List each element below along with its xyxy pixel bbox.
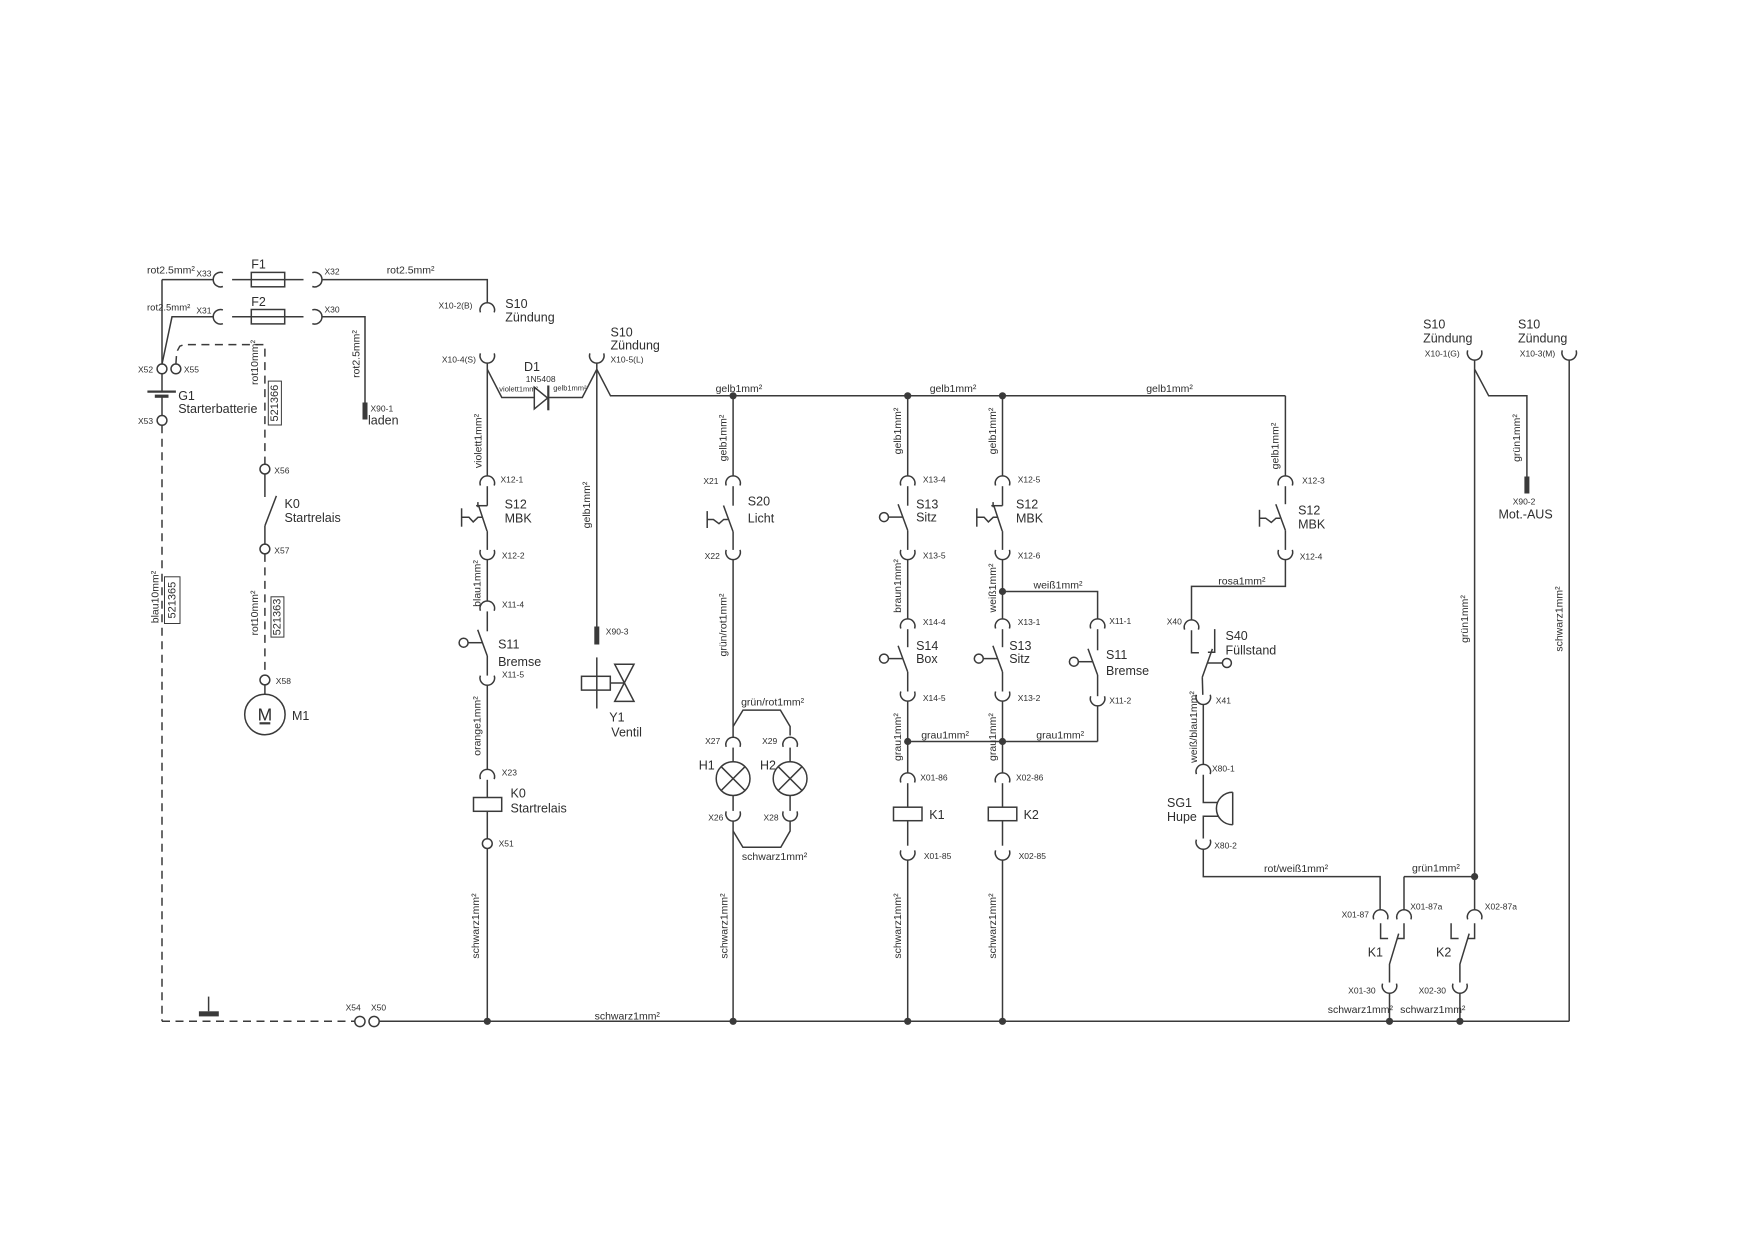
svg-text:D1: D1 bbox=[524, 360, 540, 374]
terminal X51 bbox=[482, 839, 492, 849]
wire X27 to H1 bbox=[732, 748, 734, 762]
svg-text:X01-85: X01-85 bbox=[924, 851, 952, 861]
connector X12-3 bbox=[1278, 476, 1293, 486]
wire schwarz1mm2 X51 to rail bbox=[486, 849, 488, 1022]
svg-text:Startrelais: Startrelais bbox=[511, 802, 567, 816]
svg-text:X51: X51 bbox=[499, 839, 514, 849]
svg-text:MBK: MBK bbox=[1298, 518, 1326, 532]
level switch S40 Fuellstand bbox=[1192, 630, 1199, 653]
svg-text:schwarz1mm²: schwarz1mm² bbox=[470, 893, 482, 959]
wire blau10mm2 dashed (X53 to ground) bbox=[161, 425, 163, 1021]
wire X12-3 to S12 bbox=[1284, 486, 1286, 504]
svg-text:X50: X50 bbox=[371, 1003, 386, 1013]
svg-text:X11-1: X11-1 bbox=[1109, 616, 1131, 626]
wire dashed ground rail bbox=[162, 1020, 355, 1022]
connector X01-85 bbox=[900, 850, 915, 860]
connector X11-4 bbox=[480, 601, 495, 611]
switch S14 Box contact blade bbox=[898, 646, 908, 672]
junction grau link / K1 col bbox=[904, 738, 911, 745]
svg-text:X01-86: X01-86 bbox=[920, 773, 948, 783]
svg-text:grün1mm²: grün1mm² bbox=[1459, 595, 1471, 643]
connector X10-3(M) of S10 bbox=[1562, 350, 1577, 360]
svg-text:Box: Box bbox=[916, 652, 938, 666]
wire S11 to X11-2 bbox=[1097, 675, 1099, 696]
svg-text:Sitz: Sitz bbox=[916, 511, 937, 525]
junction gelb rail / S13 column bbox=[904, 392, 911, 399]
wire X12-5 to S12 bbox=[1002, 486, 1004, 506]
wire H1 to X26 bbox=[732, 796, 734, 811]
switch S20 Licht contact blade bbox=[724, 506, 734, 532]
wire X23 to K0 coil bbox=[486, 780, 488, 798]
connector X13-5 bbox=[900, 550, 915, 560]
connector X10-1(G) of S10 bbox=[1467, 350, 1482, 360]
junction grau link / K2 col bbox=[999, 738, 1006, 745]
svg-text:rot2.5mm²: rot2.5mm² bbox=[147, 265, 195, 277]
wire rot/weiss1mm2 X80-2 to X01-87 bbox=[1203, 850, 1380, 910]
svg-text:grün1mm²: grün1mm² bbox=[1511, 414, 1523, 462]
svg-text:X14-5: X14-5 bbox=[923, 693, 946, 703]
svg-text:X01-87a: X01-87a bbox=[1410, 902, 1442, 912]
connector X01-87 bbox=[1373, 910, 1388, 920]
terminal X90-1 (blade) bbox=[363, 403, 368, 420]
svg-text:weiß1mm²: weiß1mm² bbox=[1033, 580, 1084, 592]
svg-text:521363: 521363 bbox=[272, 599, 284, 636]
svg-text:weiß/blau1mm²: weiß/blau1mm² bbox=[1188, 691, 1200, 764]
wire gelb1mm2 D1 cathode to X10-5 bbox=[548, 363, 597, 397]
connector X27 bbox=[726, 737, 741, 747]
wire through F1 bbox=[232, 279, 303, 281]
svg-text:H1: H1 bbox=[699, 758, 715, 772]
svg-text:gelb1mm²: gelb1mm² bbox=[892, 407, 904, 454]
svg-text:X13-2: X13-2 bbox=[1018, 693, 1041, 703]
wire schwarz1mm2 X10-3 down to rail bbox=[1568, 360, 1570, 1021]
svg-text:K2: K2 bbox=[1024, 808, 1039, 822]
connector X23 bbox=[480, 769, 495, 779]
wire schwarz1mm2 X02-30 to rail bbox=[1459, 994, 1461, 1022]
wire X14-4 to S14 bbox=[907, 629, 909, 647]
wire rot2.5mm2 X31 to X52 bbox=[162, 317, 213, 364]
connector X10-4(S) of S10 bbox=[480, 353, 495, 363]
switch S13 Sitz (2) actuator link bbox=[983, 658, 997, 660]
switch S11 Bremse (2) actuator link bbox=[1078, 661, 1092, 663]
cable tag 521363 bbox=[271, 597, 284, 637]
svg-text:X54: X54 bbox=[346, 1003, 361, 1013]
svg-text:X52: X52 bbox=[138, 365, 153, 375]
svg-text:gelb1mm²: gelb1mm² bbox=[581, 481, 593, 528]
svg-text:F1: F1 bbox=[251, 258, 266, 272]
connector X01-86 bbox=[900, 773, 915, 783]
wire rot10mm2 dashed (X55 to X56) bbox=[176, 345, 265, 465]
switch S12 MBK (3) detent linkage bbox=[1260, 518, 1281, 522]
svg-text:grau1mm²: grau1mm² bbox=[987, 713, 999, 761]
connector X12-6 bbox=[995, 550, 1010, 560]
svg-text:K2: K2 bbox=[1436, 946, 1451, 960]
svg-text:laden: laden bbox=[368, 414, 399, 428]
svg-text:Zündung: Zündung bbox=[505, 310, 554, 324]
svg-text:X90-1: X90-1 bbox=[371, 404, 394, 414]
switch S12 MBK (1) detent linkage bbox=[462, 517, 483, 522]
switch S20 Licht detent linkage bbox=[707, 520, 728, 524]
wire S40 to X41 bbox=[1201, 677, 1204, 695]
svg-text:gelb1mm²: gelb1mm² bbox=[1146, 383, 1193, 395]
connector X13-2 bbox=[995, 692, 1010, 702]
junction gelb rail / S20 column bbox=[730, 392, 737, 399]
terminal X50 bbox=[369, 1016, 379, 1026]
svg-text:K0: K0 bbox=[511, 786, 526, 800]
wire X12-1 to S12 bbox=[486, 486, 488, 506]
connector X02-86 bbox=[995, 773, 1010, 783]
svg-text:X02-30: X02-30 bbox=[1419, 986, 1447, 996]
svg-text:schwarz1mm²: schwarz1mm² bbox=[719, 893, 731, 959]
terminal X55 bbox=[171, 364, 181, 374]
wire X13-4 to S13 bbox=[907, 486, 909, 506]
relay contact K0 (starter) blade bbox=[265, 496, 277, 526]
svg-text:rot10mm²: rot10mm² bbox=[249, 340, 261, 385]
svg-text:Zündung: Zündung bbox=[1423, 332, 1472, 346]
connector X80-2 bbox=[1196, 840, 1211, 850]
wire X90-3 to Y1 bbox=[596, 657, 598, 676]
svg-text:X11-4: X11-4 bbox=[502, 600, 524, 610]
wire H2 to X28 bbox=[789, 796, 791, 811]
svg-text:gelb1mm²: gelb1mm² bbox=[930, 383, 977, 395]
wire blau1mm2 X12-2 to X11-4 bbox=[486, 560, 488, 601]
wire rot2.5mm2 to S10 X10-2(B) bbox=[322, 280, 487, 303]
wire below Y1 bbox=[596, 690, 598, 708]
svg-text:Zündung: Zündung bbox=[611, 339, 660, 353]
terminal X90-2 (blade) bbox=[1524, 477, 1529, 494]
svg-text:S10: S10 bbox=[505, 297, 527, 311]
wire grau1mm2 link bbox=[908, 741, 1098, 743]
terminal X54 bbox=[355, 1016, 365, 1026]
switch S12 MBK (2) fixed contact bar bbox=[991, 505, 1002, 507]
connector X13-1 bbox=[995, 619, 1010, 629]
terminal X90-3 (blade) bbox=[594, 627, 599, 645]
terminal X58 bbox=[260, 675, 270, 685]
switch S12 MBK (1) fixed contact bar bbox=[476, 505, 487, 507]
svg-text:X56: X56 bbox=[274, 466, 289, 476]
svg-text:Mot.-AUS: Mot.-AUS bbox=[1499, 508, 1553, 522]
svg-text:S10: S10 bbox=[1518, 317, 1540, 331]
switch S12 MBK (2) detent linkage bbox=[977, 517, 998, 522]
svg-text:X29: X29 bbox=[762, 736, 777, 746]
relay coil K0 Startrelais bbox=[474, 798, 502, 812]
junction col1/rail bbox=[484, 1018, 491, 1025]
switch S13 Sitz (1) actuator circle bbox=[880, 513, 889, 522]
connector X22 bbox=[726, 550, 741, 560]
relay contact K2 blade bbox=[1460, 934, 1469, 983]
wire grau1mm2 X11-2 to link bbox=[1097, 706, 1099, 741]
connector X21 bbox=[726, 476, 741, 486]
connector X02-85 bbox=[995, 850, 1010, 860]
svg-text:grau1mm²: grau1mm² bbox=[892, 713, 904, 761]
wire braun1mm2 X13-5 to X14-4 bbox=[907, 560, 909, 619]
svg-text:schwarz1mm²: schwarz1mm² bbox=[1554, 586, 1566, 652]
switch S12 MBK (3) detent post bbox=[1259, 510, 1261, 527]
svg-text:X10-3(M): X10-3(M) bbox=[1520, 349, 1556, 359]
svg-text:X10-2(B): X10-2(B) bbox=[439, 300, 473, 310]
connector X11-2 bbox=[1090, 696, 1105, 706]
connector X10-5(L) of S10 bbox=[590, 353, 605, 363]
wire S20 to X22 bbox=[732, 532, 734, 550]
wire weiss1mm2 X12-6 down bbox=[1002, 560, 1004, 619]
terminal X52 bbox=[157, 364, 167, 374]
wire K0 to X57 bbox=[264, 526, 266, 544]
switch S11 Bremse (1) contact blade bbox=[478, 630, 488, 656]
svg-text:X12-6: X12-6 bbox=[1018, 551, 1041, 561]
switch S12 MBK (1) detent post bbox=[461, 508, 463, 526]
wire grau1mm2 X14-5 to X01-86 bbox=[907, 701, 909, 772]
svg-text:X12-5: X12-5 bbox=[1018, 475, 1041, 485]
wire gruen1mm2 down to X01-87a bbox=[1403, 877, 1405, 910]
svg-text:rot10mm²: rot10mm² bbox=[249, 590, 261, 635]
svg-text:521365: 521365 bbox=[167, 582, 179, 619]
svg-text:rot2.5mm²: rot2.5mm² bbox=[387, 265, 435, 277]
switch S20 Licht detent post bbox=[706, 511, 708, 528]
svg-text:violett1mm²: violett1mm² bbox=[473, 413, 485, 468]
svg-text:SG1: SG1 bbox=[1167, 796, 1192, 810]
connector X26 bbox=[726, 811, 741, 821]
svg-text:MBK: MBK bbox=[1016, 511, 1044, 525]
wire S13 to X13-2 bbox=[1002, 672, 1004, 692]
diode D1 1N5408 bbox=[534, 387, 547, 409]
connector X40 bbox=[1184, 620, 1199, 630]
svg-text:K0: K0 bbox=[285, 497, 300, 511]
svg-text:blau1mm²: blau1mm² bbox=[472, 560, 484, 607]
wire gruen1mm2 X10-1 down to X02-87a bbox=[1474, 360, 1476, 909]
wire violett1mm2 to D1 anode bbox=[487, 369, 534, 397]
svg-text:X12-3: X12-3 bbox=[1302, 476, 1325, 486]
switch S13 Sitz (1) contact blade bbox=[898, 504, 908, 530]
svg-text:Y1: Y1 bbox=[609, 711, 624, 725]
wire X58 to M1 bbox=[264, 685, 266, 694]
relay contact K2 terminals bbox=[1451, 923, 1459, 938]
svg-text:X11-5: X11-5 bbox=[502, 670, 524, 680]
svg-text:S10: S10 bbox=[1423, 317, 1445, 331]
svg-text:X33: X33 bbox=[196, 269, 211, 279]
wire weiss/blau1mm2 X41 to X80-1 bbox=[1202, 705, 1204, 765]
svg-text:X22: X22 bbox=[705, 551, 720, 561]
wire rot2.5mm2 to X90-1 bbox=[322, 317, 365, 403]
wire schwarz1mm2 X28 joins X26 bbox=[733, 821, 790, 847]
svg-text:F2: F2 bbox=[251, 295, 266, 309]
wire K0 coil to X51 bbox=[486, 811, 488, 838]
svg-text:Bremse: Bremse bbox=[498, 655, 541, 669]
svg-text:X12-1: X12-1 bbox=[501, 475, 524, 485]
connector X02-87a bbox=[1467, 910, 1482, 920]
wire rosa1mm2 X12-4 to X40 bbox=[1192, 560, 1286, 620]
connector X12-5 bbox=[995, 476, 1010, 486]
svg-text:X90-2: X90-2 bbox=[1513, 497, 1536, 507]
junction gelb rail / S12 mid column bbox=[999, 392, 1006, 399]
svg-text:S11: S11 bbox=[1106, 648, 1127, 662]
connector X13-4 bbox=[900, 476, 915, 486]
terminal X57 bbox=[260, 544, 270, 554]
wire violett1mm2 X10-4 down to X12-1 bbox=[486, 363, 488, 475]
connector X01-87a bbox=[1397, 910, 1412, 920]
svg-text:X02-86: X02-86 bbox=[1016, 773, 1044, 783]
wire gruen1mm2 link to X01-87a bbox=[1404, 876, 1475, 878]
wire schwarz1mm2 X26 to rail bbox=[732, 821, 734, 1021]
svg-text:X01-30: X01-30 bbox=[1348, 986, 1376, 996]
svg-text:Starterbatterie: Starterbatterie bbox=[178, 402, 257, 416]
svg-text:X31: X31 bbox=[196, 306, 211, 316]
svg-text:X30: X30 bbox=[325, 305, 340, 315]
svg-text:X80-2: X80-2 bbox=[1214, 841, 1237, 851]
connector X14-4 bbox=[900, 619, 915, 629]
junction K1 contact/rail bbox=[1386, 1018, 1393, 1025]
wire X11-4 to S11 bbox=[486, 611, 488, 631]
svg-text:521366: 521366 bbox=[269, 385, 281, 422]
relay coil K1 bbox=[894, 807, 923, 821]
switch S11 Bremse (2) contact blade bbox=[1088, 649, 1098, 675]
svg-text:S13: S13 bbox=[916, 498, 938, 512]
connector X29 bbox=[783, 737, 798, 747]
svg-text:rosa1mm²: rosa1mm² bbox=[1218, 576, 1266, 588]
svg-text:K1: K1 bbox=[929, 808, 944, 822]
svg-text:X32: X32 bbox=[325, 267, 340, 277]
svg-text:schwarz1mm²: schwarz1mm² bbox=[892, 893, 904, 959]
connector X11-1 bbox=[1090, 619, 1105, 629]
wire K1 coil to X01-85 bbox=[907, 821, 909, 846]
wire down to X52 bbox=[161, 280, 163, 365]
svg-text:schwarz1mm²: schwarz1mm² bbox=[1400, 1004, 1466, 1016]
svg-text:X12-4: X12-4 bbox=[1300, 552, 1323, 562]
svg-text:Ventil: Ventil bbox=[611, 726, 642, 740]
wire S11 to X11-5 bbox=[486, 656, 488, 676]
junction K2 contact/rail bbox=[1456, 1018, 1463, 1025]
svg-text:grün/rot1mm²: grün/rot1mm² bbox=[741, 696, 805, 708]
svg-text:X01-87: X01-87 bbox=[1342, 910, 1370, 920]
junction weiss link bbox=[999, 588, 1006, 595]
svg-text:schwarz1mm²: schwarz1mm² bbox=[742, 851, 808, 863]
svg-text:X58: X58 bbox=[276, 676, 291, 686]
wire through F2 bbox=[232, 316, 303, 318]
relay contact K1 blade bbox=[1390, 934, 1399, 983]
svg-text:gelb1mm²: gelb1mm² bbox=[716, 383, 763, 395]
switch S11 Bremse (2) actuator circle bbox=[1069, 657, 1078, 666]
wire weiss1mm2 link to X11-1 bbox=[1003, 592, 1098, 619]
svg-text:gelb1mm²: gelb1mm² bbox=[987, 407, 999, 454]
svg-text:S11: S11 bbox=[498, 638, 519, 652]
wire X21 to S20 bbox=[732, 486, 734, 506]
svg-text:X90-3: X90-3 bbox=[606, 627, 629, 637]
switch S13 Sitz (2) actuator circle bbox=[974, 654, 983, 663]
junction S20 col/rail bbox=[730, 1018, 737, 1025]
wire schwarz1mm2 bottom rail bbox=[379, 1020, 1569, 1022]
svg-text:blau10mm²: blau10mm² bbox=[150, 570, 162, 623]
svg-text:schwarz1mm²: schwarz1mm² bbox=[987, 893, 999, 959]
svg-text:S20: S20 bbox=[748, 494, 770, 508]
svg-text:X10-5(L): X10-5(L) bbox=[611, 354, 644, 364]
connector X28 bbox=[783, 811, 798, 821]
wire X29 to H2 bbox=[789, 748, 791, 762]
wire X13-1 to S13 bbox=[1002, 629, 1004, 647]
svg-text:X13-4: X13-4 bbox=[923, 475, 946, 485]
svg-text:X28: X28 bbox=[763, 813, 778, 823]
svg-text:M: M bbox=[258, 704, 273, 724]
svg-text:S12: S12 bbox=[505, 498, 527, 512]
svg-text:Startrelais: Startrelais bbox=[285, 511, 341, 525]
relay coil K2 bbox=[988, 807, 1017, 821]
svg-text:S12: S12 bbox=[1298, 504, 1320, 518]
wire gelb1mm2 rail end down to X12-3 bbox=[1284, 396, 1286, 476]
wire K2 coil to X02-85 bbox=[1002, 821, 1004, 846]
wire S12 to X12-4 bbox=[1284, 530, 1286, 550]
svg-text:X21: X21 bbox=[703, 476, 718, 486]
switch S12 MBK (2) contact blade bbox=[994, 506, 1003, 531]
svg-text:rot2.5mm²: rot2.5mm² bbox=[351, 330, 363, 378]
svg-text:X02-87a: X02-87a bbox=[1485, 902, 1517, 912]
svg-text:X10-1(G): X10-1(G) bbox=[1425, 349, 1460, 359]
connector X33 bbox=[213, 272, 223, 287]
svg-text:gelb1mm²: gelb1mm² bbox=[718, 414, 730, 461]
wire S14 to X14-5 bbox=[907, 672, 909, 692]
wire X56 to K0 contact bbox=[264, 474, 266, 497]
svg-text:rot/weiß1mm²: rot/weiß1mm² bbox=[1264, 863, 1329, 875]
svg-text:grün/rot1mm²: grün/rot1mm² bbox=[718, 593, 730, 657]
wire gruen/rot1mm2 X22 down to X27 bbox=[732, 560, 734, 737]
switch S11 Bremse (1) actuator link bbox=[468, 642, 482, 644]
svg-text:gelb1mm²: gelb1mm² bbox=[1270, 422, 1282, 469]
connector X11-5 bbox=[480, 676, 495, 686]
lamp H2 bbox=[773, 762, 807, 796]
svg-text:X27: X27 bbox=[705, 736, 720, 746]
fuse F1 bbox=[251, 272, 284, 286]
junction K2 col/rail bbox=[999, 1018, 1006, 1025]
wire X01-86 to K1 coil bbox=[907, 783, 909, 807]
switch S11 Bremse (1) actuator circle bbox=[459, 638, 468, 647]
svg-text:X13-1: X13-1 bbox=[1018, 617, 1041, 627]
svg-text:X55: X55 bbox=[184, 365, 199, 375]
wire gruen1mm2 branch to X90-2 bbox=[1475, 369, 1527, 476]
svg-text:X10-4(S): X10-4(S) bbox=[442, 354, 476, 364]
switch S12 MBK (2) detent post bbox=[976, 508, 978, 526]
wire X02-86 to K2 coil bbox=[1002, 783, 1004, 807]
svg-text:X53: X53 bbox=[138, 416, 153, 426]
junction gruen link bbox=[1471, 873, 1478, 880]
wire gelb1mm2 to X13-4 bbox=[907, 396, 909, 476]
connector X12-1 bbox=[480, 476, 495, 486]
connector X01-30 bbox=[1382, 984, 1397, 994]
svg-text:grau1mm²: grau1mm² bbox=[1036, 730, 1084, 742]
wire schwarz1mm2 X01-30 to rail bbox=[1389, 994, 1391, 1022]
wire gelb1mm2 to X12-5 bbox=[1002, 396, 1004, 476]
svg-text:Hupe: Hupe bbox=[1167, 810, 1197, 824]
connector X14-5 bbox=[900, 692, 915, 702]
svg-text:X41: X41 bbox=[1216, 696, 1231, 706]
connector X30 bbox=[312, 310, 322, 325]
svg-text:rot2.5mm²: rot2.5mm² bbox=[147, 302, 190, 313]
svg-text:braun1mm²: braun1mm² bbox=[892, 559, 904, 613]
svg-text:S14: S14 bbox=[916, 639, 938, 653]
lamp H1 bbox=[716, 762, 750, 796]
wire S12 to X12-6 bbox=[1002, 531, 1004, 550]
svg-text:grün1mm²: grün1mm² bbox=[1412, 863, 1460, 875]
wire gruen/rot1mm2 branch to X29 bbox=[733, 710, 790, 735]
svg-text:H2: H2 bbox=[760, 758, 776, 772]
svg-text:S10: S10 bbox=[611, 326, 633, 340]
connector X10-2(B) of S10 bbox=[480, 303, 495, 313]
wire X11-1 to S11 bbox=[1097, 629, 1099, 650]
wire gelb1mm2 main rail bbox=[597, 369, 1286, 396]
cable tag 521366 bbox=[268, 381, 281, 425]
svg-text:X11-2: X11-2 bbox=[1109, 696, 1131, 706]
svg-text:Licht: Licht bbox=[748, 511, 775, 525]
switch S13 Sitz (1) actuator link bbox=[889, 516, 903, 518]
switch S12 MBK (1) contact blade bbox=[479, 506, 488, 531]
connector X12-4 bbox=[1278, 550, 1293, 560]
wire schwarz1mm2 K2 to rail bbox=[1002, 860, 1004, 1021]
